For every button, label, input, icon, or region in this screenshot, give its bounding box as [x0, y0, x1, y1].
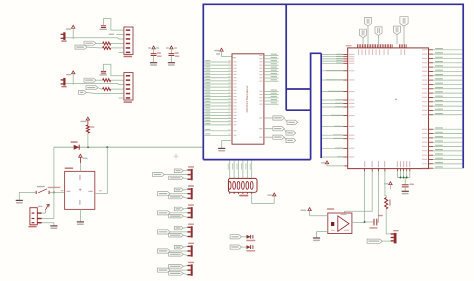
- power arrow CPU bottom-left pin: [325, 161, 328, 164]
- connector J2 power 3-pin: [30, 208, 37, 225]
- wire CPU to opamp out: [364, 169, 366, 172]
- diode D2 row: [230, 235, 241, 239]
- IC U2 CPU: [348, 48, 429, 169]
- capacitor decoupling at x=171.4: [170, 46, 173, 49]
- CPU top pins: [357, 44, 359, 48]
- resistor R series RX: [103, 88, 111, 91]
- wire flag to R: [96, 79, 103, 81]
- backplane right stub wires: [264, 55, 279, 57]
- wire cap loop to pin1: [103, 64, 123, 76]
- power arrow +5V: [72, 25, 75, 28]
- net flag upper: [169, 265, 184, 269]
- net flag row B: [264, 128, 273, 130]
- ground: [313, 237, 320, 239]
- wire conn to header pin3: [66, 38, 124, 39]
- wire CPU to cap right: [378, 169, 380, 172]
- op-amp IC4: [328, 213, 352, 234]
- CPU right pins and wires to bus: [429, 49, 434, 51]
- supply flag F5: [400, 17, 408, 26]
- resistor R series RX: [103, 46, 111, 49]
- connector 3-pin: [191, 226, 193, 237]
- net flag upper: [174, 207, 183, 211]
- connector X serial plug: [63, 32, 65, 40]
- resistor network RN1: [228, 178, 257, 192]
- power arrow VCC: [389, 182, 392, 185]
- ground: [168, 62, 175, 64]
- wire switch left to gnd: [19, 192, 36, 200]
- ground backplane: [222, 141, 232, 149]
- resistor R series TX: [103, 79, 111, 82]
- header JP serial 6-pin: [124, 73, 133, 100]
- wire opamp input: [310, 215, 328, 217]
- cross origin mark: [174, 154, 179, 159]
- ground: [402, 190, 409, 192]
- resistor R series TX: [103, 42, 111, 45]
- wire pin2 stub: [116, 34, 123, 36]
- wire J2 pin3 gnd: [42, 223, 54, 226]
- resistor network RN1 wires: [229, 160, 231, 178]
- CPU left pins: [322, 54, 343, 56]
- wire rail down to switch: [42, 147, 54, 218]
- wire RN to arrow: [252, 194, 275, 203]
- diode D1: [74, 145, 80, 150]
- net flag lower: [169, 253, 184, 257]
- wire cap loop to pin1: [103, 19, 123, 31]
- wire J2 pin1 arrow: [42, 212, 46, 214]
- switch S1: [35, 191, 37, 194]
- node dots rail: [87, 146, 89, 148]
- net flag lower: [169, 195, 184, 199]
- wire +5V rail: [54, 146, 203, 148]
- power arrow: [86, 117, 89, 120]
- supply flag F3: [375, 27, 382, 36]
- wire CPU to resistor: [384, 169, 386, 172]
- wire flag to R: [96, 43, 103, 45]
- capacitor C out series: [373, 219, 375, 226]
- resistor R out: [385, 198, 388, 209]
- power arrow reg top: [79, 154, 82, 157]
- wire opamp gnd pin: [317, 232, 328, 238]
- net flag lower: [169, 214, 184, 218]
- net flag lower: [169, 272, 184, 276]
- capacitor decoupling at x=153.6: [152, 46, 155, 49]
- connector 3-pin: [191, 169, 193, 180]
- svg-text:RC2014 Backplane: RC2014 Backplane: [245, 85, 249, 112]
- net flag upper: [174, 169, 183, 173]
- connector 3-pin: [191, 188, 193, 199]
- wire flag to pin5: [86, 92, 123, 93]
- connector 3-pin: [191, 207, 193, 218]
- net flag upper: [174, 188, 183, 192]
- net flag RX: [86, 86, 98, 90]
- IC1 voltage regulator: [65, 171, 95, 209]
- net flag row A: [264, 117, 273, 119]
- net flag audio: [367, 239, 382, 243]
- net flag RX: [75, 45, 87, 49]
- capacitor C bypass: [101, 25, 106, 27]
- power arrow opamp: [308, 208, 311, 211]
- capacitor C bypass: [101, 70, 106, 72]
- supply flag F2: [360, 29, 367, 38]
- net flag left: [158, 268, 171, 272]
- CPU VCC cluster: [396, 169, 398, 172]
- net flag TX: [84, 78, 96, 82]
- capacitor C bulk: [404, 178, 406, 185]
- net flag left: [158, 230, 171, 234]
- net flag lower: [169, 176, 184, 180]
- backplane left bus wires: [204, 61, 232, 63]
- net flag left: [158, 211, 171, 215]
- net flag TX: [84, 41, 96, 45]
- wire reg output: [95, 147, 108, 193]
- diode D3 row: [230, 245, 241, 249]
- wire CPU to opamp top: [371, 169, 373, 172]
- net flag extra: [79, 91, 87, 95]
- net flag upper: [174, 226, 183, 230]
- power arrow +5V backplane: [220, 48, 223, 51]
- net flag left: [153, 173, 165, 177]
- connector J4 3-pin: [394, 233, 397, 244]
- net flag lower: [169, 234, 184, 238]
- net flag left: [158, 192, 171, 196]
- wire opamp output: [352, 222, 365, 224]
- net flag left: [158, 249, 171, 253]
- wire switch to regulator: [49, 191, 65, 193]
- wire flag to R: [98, 88, 103, 89]
- supply flag F4: [394, 26, 401, 35]
- power arrow +5V: [72, 71, 75, 74]
- ground: [50, 225, 57, 227]
- ground: [150, 62, 157, 64]
- header JP serial 6-pin: [124, 27, 133, 54]
- net flag row C: [264, 136, 273, 138]
- wire flag to R: [87, 46, 103, 49]
- IC U1 RC2014 Backplane: [232, 54, 264, 144]
- ground reg: [79, 209, 81, 222]
- CPU bottom pin names: [364, 161, 365, 167]
- connector X serial plug: [63, 78, 65, 86]
- connector 3-pin: [191, 245, 193, 256]
- bus B1 backbone: [203, 4, 463, 168]
- ground: [16, 199, 23, 201]
- connector 3-pin: [191, 264, 193, 275]
- net flag upper: [174, 245, 183, 249]
- wire conn to header pin3: [66, 83, 124, 84]
- power arrow: [273, 193, 276, 196]
- supply flag F1: [365, 18, 372, 27]
